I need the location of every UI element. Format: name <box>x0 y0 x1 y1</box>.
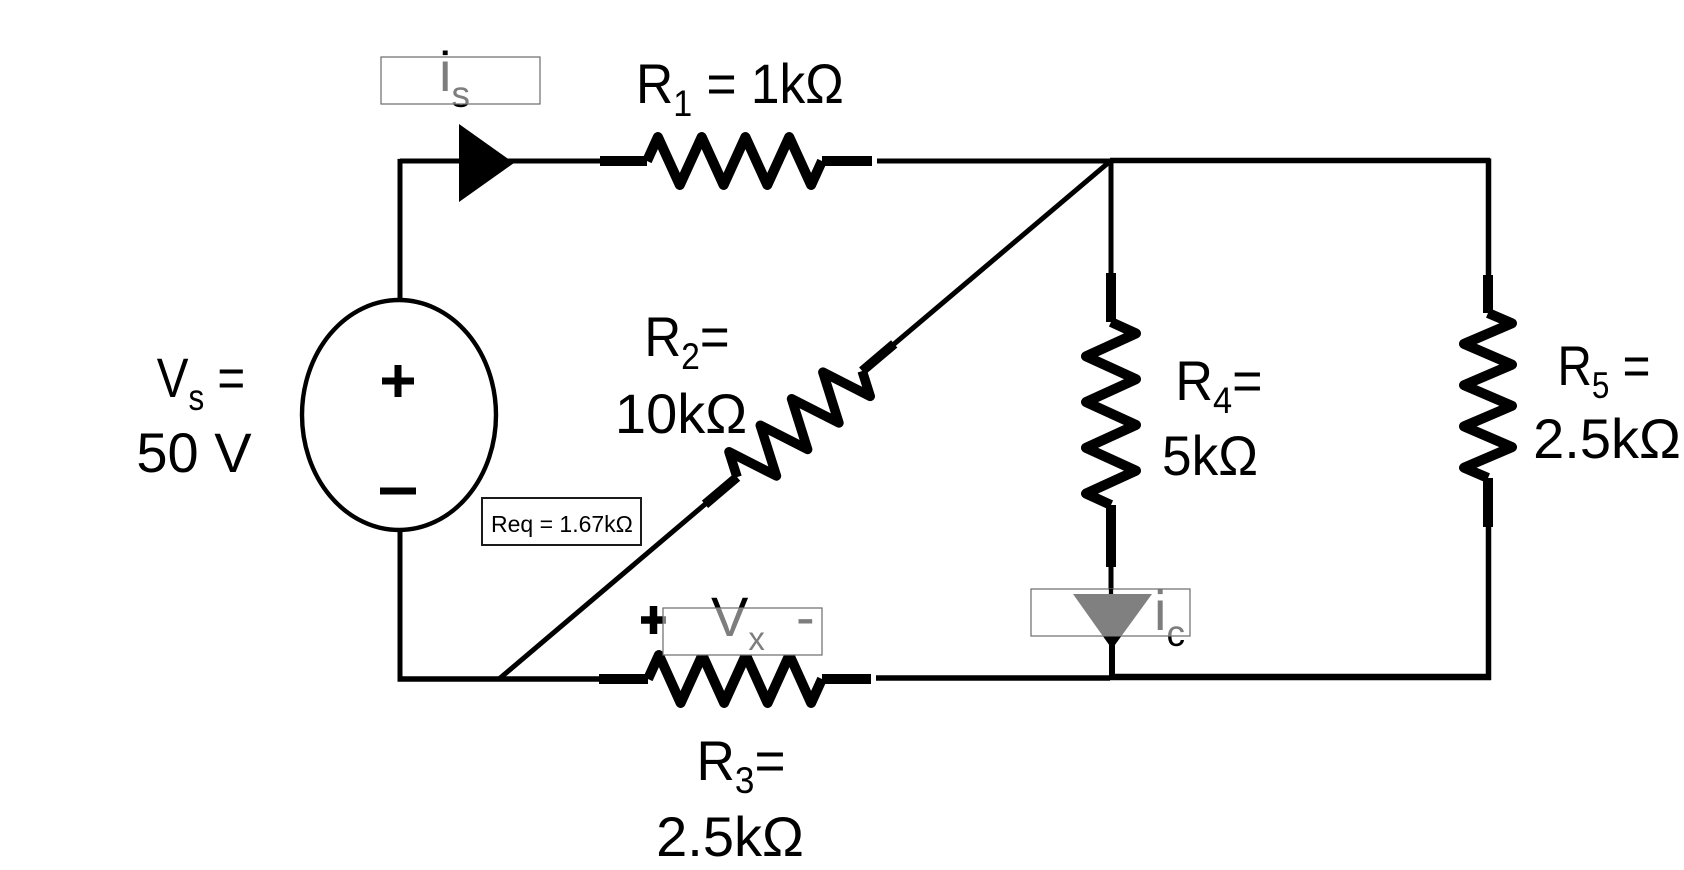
label R4 value <box>1162 350 1263 487</box>
label R3 value <box>656 730 804 868</box>
node label vx black layer <box>641 585 815 657</box>
current arrow ic black layer <box>1073 579 1185 679</box>
svg-text:R1 = 1kΩ: R1 = 1kΩ <box>636 53 844 124</box>
resistor R3 <box>599 655 871 703</box>
svg-text:10kΩ: 10kΩ <box>615 382 747 445</box>
svg-text:Req = 1.67kΩ: Req = 1.67kΩ <box>491 511 633 537</box>
svg-text:50 V: 50 V <box>136 421 252 484</box>
node label is gray layer <box>439 40 470 115</box>
wire top horizontal <box>400 158 1490 164</box>
wire middle vertical (R4 branch) <box>1109 161 1114 600</box>
label R2 value <box>615 307 747 445</box>
annotation box is <box>381 57 540 104</box>
annotation box Req <box>482 498 641 545</box>
svg-text:2.5kΩ: 2.5kΩ <box>1533 407 1681 470</box>
current arrow ic gray layer <box>1073 579 1185 654</box>
resistor R1 <box>600 137 872 185</box>
svg-text:R4=: R4= <box>1175 350 1262 421</box>
resistor R2 <box>705 344 894 504</box>
voltage source VS ellipse <box>302 300 496 530</box>
wire diagonal (R2 branch) <box>499 161 1111 680</box>
svg-text:R3=: R3= <box>696 730 785 801</box>
svg-text:Vs =: Vs = <box>157 347 245 418</box>
node label vx gray layer <box>641 585 815 657</box>
label R5 value <box>1533 335 1681 470</box>
wire right vertical (R5 branch) <box>1486 159 1492 681</box>
annotation box ic <box>1031 589 1190 636</box>
annotation box vx <box>663 608 822 655</box>
svg-text:5kΩ: 5kΩ <box>1162 425 1258 488</box>
svg-text:R2=: R2= <box>644 307 729 378</box>
label R1 value <box>636 53 844 124</box>
current arrow is on top wire <box>459 124 514 202</box>
resistor R4 <box>1086 273 1136 567</box>
resistor R5 <box>1464 275 1512 527</box>
wire left vertical (source branch) <box>398 159 403 681</box>
svg-text:2.5kΩ: 2.5kΩ <box>656 805 804 868</box>
voltage source minus sign <box>380 488 416 495</box>
label Req value <box>491 511 633 537</box>
voltage source plus sign <box>382 365 414 397</box>
svg-text:R5 =: R5 = <box>1558 335 1651 406</box>
wire bottom horizontal <box>398 677 1492 679</box>
label VS value <box>136 347 252 484</box>
